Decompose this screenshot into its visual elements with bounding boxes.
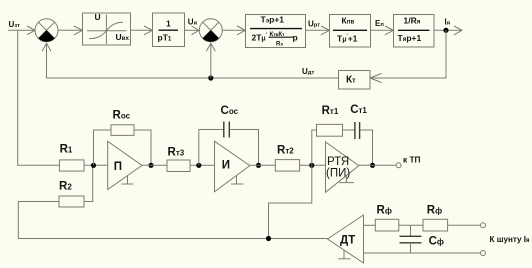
svg-text:R2: R2 — [59, 181, 72, 193]
wire Cф down to bottom rail — [410, 243, 412, 253]
wire PI block to Кпв block — [306, 29, 330, 31]
svg-text:R1: R1 — [60, 144, 73, 156]
wire Rф2 to top terminal — [448, 224, 481, 226]
svg-text:Тяр+1: Тяр+1 — [398, 33, 422, 43]
wire armature block to output — [434, 29, 462, 31]
svg-text:Cф: Cф — [429, 236, 444, 248]
wire Rт1 to Cт1 — [343, 129, 355, 131]
wire ДТ bottom rail to terminal — [364, 252, 481, 254]
svg-text:К шунту Iя: К шунту Iя — [490, 234, 530, 244]
wire РТЯ output to terminal — [359, 164, 396, 166]
wire Rт2 to op-amp РТЯ input — [300, 164, 326, 166]
wire Cт1 feedback loop right — [360, 130, 373, 165]
saturation block U1 — [83, 12, 131, 45]
wire Кт to feedback rail — [47, 43, 339, 78]
ground of И — [231, 176, 244, 185]
svg-text:Rт1: Rт1 — [322, 105, 339, 117]
wire SJ1 to saturation block — [58, 29, 83, 31]
resistor R1 — [59, 160, 84, 171]
wire arrowhead into saturation block — [74, 26, 83, 35]
svg-text:Rос: Rос — [113, 110, 131, 122]
ground of РТЯ — [339, 176, 354, 183]
wire Кпв block to armature block — [371, 29, 394, 31]
capacitor Cос — [224, 122, 230, 138]
svg-text:Rт3: Rт3 — [168, 147, 185, 159]
wire Iя feedback down and left to Кт — [370, 30, 446, 78]
op-amp И — [215, 141, 250, 192]
resistor Rт3 — [167, 160, 190, 172]
wire arrowhead up into SJ1 — [42, 43, 51, 51]
wire ДТ top output to Rф1 — [364, 224, 376, 226]
wire Cос feedback loop left — [199, 130, 224, 166]
wire branch Uзт down to R1 — [18, 30, 60, 165]
summing junction SJ1 — [35, 19, 58, 42]
wire Uзт input — [8, 29, 35, 31]
svg-text:Cт1: Cт1 — [350, 104, 367, 116]
resistor Rф1 — [375, 219, 399, 231]
op-amp ДТ — [328, 215, 364, 263]
ground of П — [122, 176, 134, 185]
svg-text:РТЯ: РТЯ — [327, 156, 349, 168]
wire arrowhead into armature block — [385, 26, 394, 35]
svg-text:Тμ'+1: Тμ'+1 — [337, 34, 358, 44]
summing junction SJ2 — [199, 19, 222, 42]
wire saturation block to integrator block — [131, 29, 153, 31]
resistor Roc — [111, 125, 134, 136]
node junction dot Iя — [443, 28, 448, 33]
svg-text:Rт2: Rт2 — [277, 145, 294, 157]
svg-text:Cос: Cос — [221, 105, 239, 117]
wire Rф1 to Rф2 — [399, 224, 423, 226]
capacitor Cт1 — [355, 122, 360, 139]
svg-text:И: И — [222, 160, 230, 172]
wire R2 right up to node A — [84, 165, 93, 201]
wire arrowhead up into SJ2 — [206, 43, 215, 51]
node C junction dot (И input) — [196, 163, 201, 168]
node junction dot on DT rail — [266, 236, 271, 241]
block (Tэр+1)/(2Tμ(КтвКт/Rэ)p) — [246, 15, 306, 48]
wire arrowhead into SJ2 — [192, 26, 200, 35]
node A junction dot — [91, 163, 96, 168]
svg-text:П: П — [114, 161, 122, 173]
wire Roc feedback loop left — [94, 130, 112, 165]
terminal top shunt — [481, 223, 486, 228]
block Кпв/(Тμ+1) — [330, 15, 371, 48]
svg-text:U: U — [95, 12, 101, 22]
wire output arrowhead Iя — [454, 26, 462, 35]
terminal bottom shunt — [481, 251, 486, 256]
node D junction dot (И output) — [256, 163, 261, 168]
svg-text:к ТП: к ТП — [403, 155, 421, 165]
resistor Rф2 — [423, 219, 448, 231]
ground of ДТ — [338, 250, 350, 259]
svg-text:Rэ: Rэ — [276, 40, 283, 47]
wire R2 left to DT output rail — [18, 202, 327, 239]
node B junction dot (П output) — [148, 163, 153, 168]
block 1/pT1 — [153, 13, 185, 47]
svg-text:Тэр+1: Тэр+1 — [261, 15, 285, 25]
wire riser up into SJ2 — [210, 43, 212, 78]
node E junction dot (РТЯ input) — [309, 163, 314, 168]
wire R1 to op-amp П input — [84, 164, 108, 166]
op-amp РТЯ (ПИ) — [326, 142, 359, 192]
wire SJ2 to PI block — [222, 29, 245, 31]
svg-text:p: p — [293, 33, 298, 43]
wire arrowhead into Кт block — [370, 74, 382, 83]
wire И output to Rт2 — [250, 164, 275, 166]
wire Rт1 feedback loop left — [312, 130, 317, 165]
svg-text:ДТ: ДТ — [340, 235, 355, 247]
resistor Rт1 — [317, 124, 343, 136]
svg-text:1: 1 — [166, 19, 171, 29]
wire arrowhead into Кпв block — [321, 26, 330, 35]
wire arrowhead into PI block — [237, 26, 246, 35]
wire arrowhead into 1/pT1 block — [144, 26, 153, 35]
capacitor Cф — [400, 236, 422, 243]
wire arrowhead into SJ1 — [27, 26, 35, 35]
node F junction dot (РТЯ output) — [370, 163, 375, 168]
block Кт — [339, 71, 371, 90]
op-amp П — [108, 141, 142, 189]
svg-text:Rф: Rф — [377, 205, 392, 217]
wire Cос feedback loop right — [229, 130, 258, 166]
resistor Rт2 — [275, 160, 299, 172]
node junction dot under SJ2 — [208, 75, 213, 80]
resistor R2 — [59, 196, 84, 207]
svg-text:Rф: Rф — [427, 205, 442, 217]
wire 1/pT1 to SJ2 — [185, 29, 200, 31]
wire П output to Rт3 — [142, 164, 167, 166]
wire Roc feedback loop right — [134, 130, 151, 165]
wire РТЯ input down to DT rail — [269, 165, 312, 238]
wire Cф tap down — [410, 225, 412, 236]
wire Rт3 to op-amp И input — [190, 164, 215, 166]
block (1/Rя)/(Тяр+1) — [394, 15, 435, 48]
terminal к ТП — [396, 163, 401, 168]
